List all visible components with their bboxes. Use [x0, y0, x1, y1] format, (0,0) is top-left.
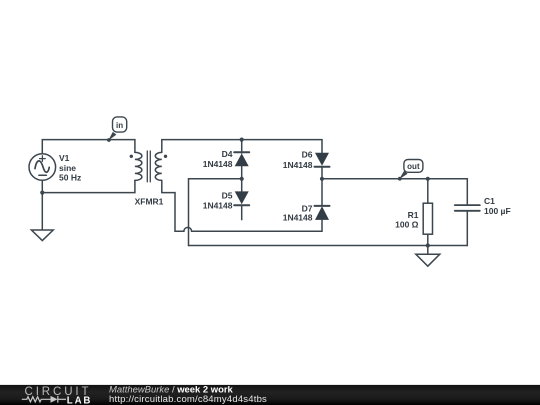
junction at output node of bridge	[320, 177, 324, 181]
svg-text:D6: D6	[302, 150, 313, 160]
svg-text:out: out	[407, 162, 420, 171]
junction at D4 cathode on top rail	[240, 138, 244, 142]
transformer XFMR1 core	[147, 151, 150, 182]
svg-text:sine: sine	[59, 163, 76, 173]
junction at D4 anode / D5 anode node	[240, 177, 244, 181]
wire to ground GND2	[427, 246, 429, 255]
svg-text:XFMR1: XFMR1	[135, 197, 164, 207]
diode D6	[315, 140, 330, 179]
wire secondary bottom to D7 anode (with hop over wire)	[162, 180, 322, 231]
svg-text:D5: D5	[222, 191, 233, 201]
junction at V1 bottom node	[40, 191, 44, 195]
svg-text:1N4148: 1N4148	[203, 201, 233, 211]
svg-text:http://circuitlab.com/c84my4d4: http://circuitlab.com/c84my4d4s4tbs	[109, 394, 267, 405]
diode D4	[234, 140, 249, 179]
wire secondary top rail to D4 and D6	[162, 140, 322, 153]
svg-text:in: in	[116, 121, 123, 130]
transformer XFMR1 primary coil	[135, 152, 142, 180]
svg-text:1N4148: 1N4148	[283, 213, 313, 223]
node flag in	[107, 117, 127, 142]
svg-text:100 Ω: 100 Ω	[395, 220, 419, 230]
svg-text:D4: D4	[222, 149, 233, 159]
wire V1 node to ground	[41, 193, 43, 230]
transformer XFMR1 secondary coil	[155, 152, 162, 180]
wire D4 anode node to bottom rail	[189, 179, 242, 246]
svg-text:C1: C1	[484, 196, 495, 206]
XFMR1 secondary phase dot	[164, 155, 167, 158]
ground GND2	[416, 254, 440, 266]
capacitor C1	[455, 179, 480, 246]
ground GND1	[31, 230, 53, 241]
voltage source V1	[29, 154, 56, 181]
XFMR1 primary phase dot	[130, 155, 133, 158]
wire V1 bottom to XFMR1 primary bottom	[42, 180, 135, 192]
svg-text:R1: R1	[408, 210, 419, 220]
diode D7	[315, 179, 330, 220]
diode D5	[234, 179, 249, 220]
svg-text:50 Hz: 50 Hz	[59, 173, 81, 183]
wire V1 top to XFMR1 primary top	[42, 140, 135, 154]
svg-text:V1: V1	[59, 153, 70, 163]
svg-text:1N4148: 1N4148	[283, 160, 313, 170]
wire bottom rail	[189, 245, 468, 247]
node flag out	[398, 160, 423, 181]
wire out rail from bridge to C1	[322, 178, 467, 180]
svg-text:LAB: LAB	[67, 396, 92, 405]
svg-text:1N4148: 1N4148	[203, 159, 233, 169]
junction at R1 bottom / ground node	[426, 243, 430, 247]
wire V1 bottom lead	[41, 180, 43, 192]
resistor R1	[423, 179, 432, 246]
junction at R1 top	[426, 177, 430, 181]
CircuitLab logo circuit line with resistor and diode	[22, 396, 66, 403]
svg-text:100 µF: 100 µF	[484, 206, 511, 216]
